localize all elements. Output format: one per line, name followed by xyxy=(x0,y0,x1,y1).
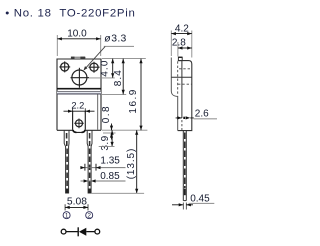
svg-text:4.0: 4.0 xyxy=(99,59,110,76)
svg-text:• No. 18 TO-220F2Pin: • No. 18 TO-220F2Pin xyxy=(5,8,135,20)
svg-text:10.0: 10.0 xyxy=(67,28,87,39)
svg-text:2: 2 xyxy=(87,213,91,220)
svg-text:0.45: 0.45 xyxy=(190,193,210,204)
svg-text:1.35: 1.35 xyxy=(100,156,120,167)
svg-text:(13.5): (13.5) xyxy=(126,148,137,180)
svg-text:3.3: 3.3 xyxy=(111,34,127,45)
svg-text:2.2: 2.2 xyxy=(71,100,84,110)
svg-text:2.6: 2.6 xyxy=(195,108,209,119)
svg-text:2.8: 2.8 xyxy=(172,37,186,48)
svg-text:5.08: 5.08 xyxy=(67,196,87,207)
svg-text:ø: ø xyxy=(104,34,111,45)
svg-text:8.4: 8.4 xyxy=(113,69,124,86)
svg-text:16.9: 16.9 xyxy=(128,88,139,113)
svg-text:3.9: 3.9 xyxy=(100,135,111,150)
svg-text:1: 1 xyxy=(65,213,69,220)
svg-text:0.8: 0.8 xyxy=(101,105,112,123)
svg-text:4.2: 4.2 xyxy=(175,23,189,34)
svg-text:0.85: 0.85 xyxy=(100,171,120,182)
